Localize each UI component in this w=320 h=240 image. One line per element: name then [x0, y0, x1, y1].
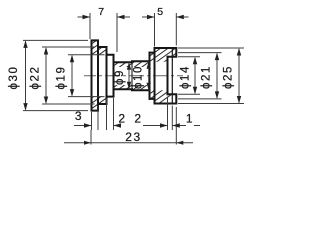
svg-text:5: 5 — [157, 6, 164, 18]
svg-text:23: 23 — [125, 130, 142, 144]
svg-text:ϕ14: ϕ14 — [180, 65, 192, 89]
svg-text:ϕ30: ϕ30 — [8, 65, 20, 89]
svg-text:3: 3 — [75, 109, 83, 123]
svg-text:2: 2 — [118, 112, 126, 126]
svg-text:ϕ9: ϕ9 — [114, 69, 126, 85]
svg-text:ϕ25: ϕ25 — [223, 65, 235, 89]
svg-text:7: 7 — [98, 6, 105, 18]
svg-text:ϕ10: ϕ10 — [133, 65, 145, 89]
svg-text:2: 2 — [134, 112, 142, 126]
svg-text:ϕ21: ϕ21 — [201, 65, 213, 89]
svg-text:ϕ22: ϕ22 — [30, 65, 42, 89]
svg-text:1: 1 — [186, 112, 194, 126]
svg-text:ϕ19: ϕ19 — [56, 65, 68, 89]
